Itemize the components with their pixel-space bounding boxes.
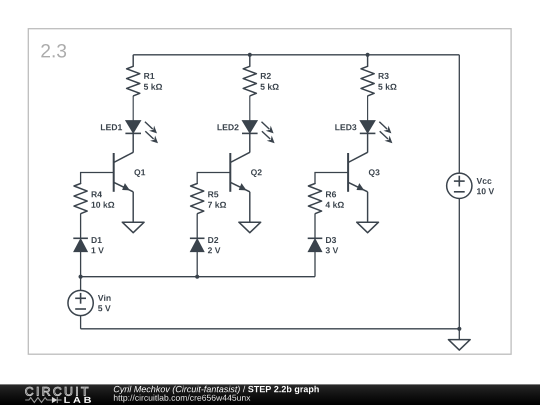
wire xyxy=(367,55,369,67)
wire right rail upper xyxy=(458,55,460,173)
LED LED1 xyxy=(101,121,158,144)
resistor R2 5 kOhm xyxy=(243,66,279,96)
wire top rail xyxy=(133,54,459,56)
wire base xyxy=(315,173,348,184)
wire xyxy=(458,329,460,340)
wire right rail lower xyxy=(458,199,460,329)
wire xyxy=(132,192,134,222)
wire xyxy=(80,214,82,239)
LED LED2 xyxy=(218,121,275,144)
wire xyxy=(80,252,82,277)
ground xyxy=(239,222,261,233)
wire xyxy=(314,252,316,277)
resistor R6 xyxy=(308,183,344,214)
wire xyxy=(132,96,134,121)
wire xyxy=(132,133,134,152)
CircuitLab logo: LAB xyxy=(64,397,91,403)
CircuitLab logo: CIRCUIT xyxy=(25,387,88,396)
node junction D2 xyxy=(195,275,199,279)
schematic frame xyxy=(28,29,511,355)
ground xyxy=(448,340,470,351)
diode D2 xyxy=(190,237,221,253)
LED LED3 xyxy=(335,121,392,144)
wire xyxy=(132,55,134,67)
ground xyxy=(357,222,379,233)
node junction top R3 xyxy=(366,53,370,57)
node junction ground xyxy=(457,327,461,331)
voltage source Vin 5 V xyxy=(68,290,111,315)
wire xyxy=(249,55,251,67)
resistor R5 xyxy=(191,183,227,214)
resistor R4 xyxy=(74,183,114,214)
wire xyxy=(367,96,369,121)
node junction top R2 xyxy=(248,53,252,57)
wire xyxy=(196,214,198,239)
diode D1 xyxy=(73,237,104,253)
voltage source Vcc 10 V xyxy=(447,173,494,198)
wire xyxy=(249,192,251,222)
wire xyxy=(249,96,251,121)
wire xyxy=(196,252,198,277)
footer line 2 xyxy=(114,395,251,403)
footer line 1 xyxy=(114,386,319,394)
wire xyxy=(249,133,251,152)
node junction D1/Vin xyxy=(79,275,83,279)
wire base rail xyxy=(81,276,315,278)
resistor R3 5 kOhm xyxy=(361,66,397,96)
ground xyxy=(122,222,144,233)
resistor R1 5 kOhm xyxy=(127,66,163,96)
wire xyxy=(367,133,369,152)
figure number 2.3 xyxy=(41,44,66,58)
CircuitLab logo: resistor zigzag + diode xyxy=(25,397,61,403)
wire base xyxy=(81,173,114,184)
wire xyxy=(80,316,82,329)
wire bottom rail xyxy=(81,328,460,330)
transistor Q1 NPN xyxy=(114,152,146,192)
transistor Q2 NPN xyxy=(230,152,261,192)
wire xyxy=(314,214,316,239)
diode D3 xyxy=(308,237,339,253)
wire xyxy=(80,277,82,291)
transistor Q3 NPN xyxy=(348,152,380,192)
wire base xyxy=(197,173,230,184)
wire xyxy=(367,192,369,222)
